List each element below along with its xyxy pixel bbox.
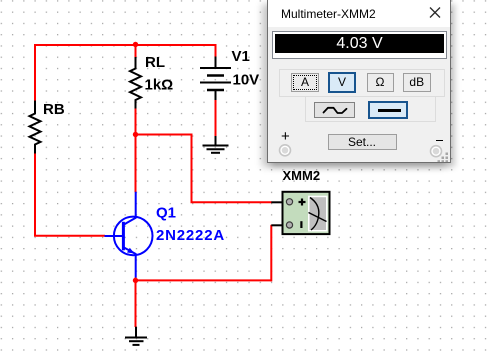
terminal jacks and resize grip (268, 0, 450, 162)
svg-text:2N2222A: 2N2222A (156, 227, 225, 244)
label 1kΩ (value of RL) (145, 77, 174, 94)
wire: left vertical from top rail to RB (34, 45, 36, 101)
button A (291, 73, 319, 92)
group box around signal buttons (305, 96, 436, 122)
wire: collector junction down to Q1 collector pin (135, 135, 137, 193)
button sine (AC mode) (314, 102, 355, 118)
resistor RB (30, 101, 41, 154)
button dB (403, 73, 432, 92)
ground under V1 (203, 136, 229, 153)
readout display (272, 31, 447, 59)
label RB (43, 101, 65, 118)
label XMM2 (283, 168, 321, 183)
label Q1 (156, 205, 176, 222)
multimeter icon XMM2 body (283, 192, 330, 234)
label 10V (value of V1) (233, 72, 260, 89)
node: junction at emitter net (133, 278, 138, 283)
svg-text:10V: 10V (233, 72, 260, 89)
window title text (281, 7, 376, 21)
button DC mode (selected) (368, 101, 408, 119)
svg-text:XMM2: XMM2 (283, 168, 321, 183)
battery V1 (200, 57, 231, 101)
svg-text:RL: RL (145, 54, 165, 71)
group box around mode buttons (279, 69, 445, 97)
label RL (145, 54, 165, 71)
wire: top horizontal rail (34, 44, 216, 46)
ground under Q1 (125, 327, 147, 345)
svg-text:RB: RB (43, 101, 65, 118)
resistor RL (130, 57, 141, 109)
node: junction at collector net (133, 132, 138, 137)
window close button (424, 2, 446, 24)
window title bar (268, 0, 450, 27)
wire: vertical down beside V1 ground (192, 134, 272, 203)
plus terminal label (281, 128, 290, 145)
wire: stub from rail to V1 (215, 44, 217, 57)
transistor Q1 (105, 192, 153, 278)
wire: emitter junction to XMM2 - (horizontal) (135, 279, 273, 281)
wire: RL bottom to collector junction (135, 109, 137, 136)
multimeter window Multimeter-XMM2 (267, 0, 451, 163)
svg-text:V1: V1 (232, 48, 250, 65)
wire: V1 bottom to ground (215, 100, 217, 136)
node: junction at RL top (133, 42, 138, 47)
wire: stub from rail to RL (135, 45, 137, 58)
label 2N2222A (value of Q1) (156, 227, 225, 244)
wire: vertical up to XMM2 - pin (270, 225, 272, 282)
minus terminal label (436, 140, 443, 142)
button ohm (367, 73, 394, 92)
multimeter icon XMM2: + pin lead (271, 201, 287, 203)
svg-text:1kΩ: 1kΩ (145, 77, 174, 94)
button Set (328, 134, 397, 150)
svg-text:Q1: Q1 (156, 205, 176, 222)
wire: emitter down to ground (135, 278, 137, 328)
wire: RB bottom vertical (35, 154, 105, 236)
button V (selected) (328, 72, 356, 93)
label V1 (232, 48, 250, 65)
multimeter icon XMM2: - pin lead (271, 224, 287, 226)
wire: collector junction to XMM2 + (horizontal) (136, 134, 192, 136)
